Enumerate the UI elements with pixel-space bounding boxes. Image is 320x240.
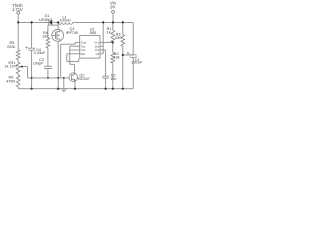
svg-text:100uH: 100uH (59, 19, 70, 23)
svg-text:470R: 470R (6, 79, 15, 83)
svg-text:IRF740: IRF740 (66, 31, 78, 35)
svg-text:0.33uF: 0.33uF (34, 51, 47, 55)
svg-text:1.71V: 1.71V (12, 7, 23, 12)
svg-text:9V: 9V (110, 4, 115, 9)
svg-text:10n: 10n (110, 77, 116, 81)
svg-text:Ctl: Ctl (96, 52, 100, 56)
svg-text:330uF: 330uF (131, 61, 142, 65)
svg-text:BC547: BC547 (78, 77, 90, 81)
svg-text:UF4004: UF4004 (39, 18, 53, 22)
svg-text:13k: 13k (113, 56, 119, 60)
svg-text:1k 10%: 1k 10% (5, 64, 18, 68)
svg-text:100pF: 100pF (33, 61, 44, 65)
svg-text:555: 555 (90, 31, 96, 35)
svg-text:1k: 1k (107, 30, 111, 34)
svg-text:220k: 220k (7, 45, 15, 49)
svg-text:2k2: 2k2 (43, 35, 49, 39)
svg-text:Rst: Rst (81, 52, 86, 56)
svg-text:540: 540 (115, 36, 121, 40)
